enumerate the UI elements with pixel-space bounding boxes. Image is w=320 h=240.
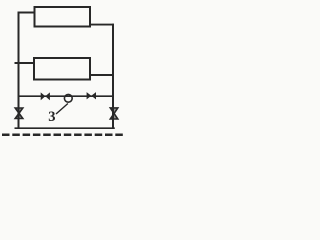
svg-text:3: 3	[48, 109, 55, 125]
